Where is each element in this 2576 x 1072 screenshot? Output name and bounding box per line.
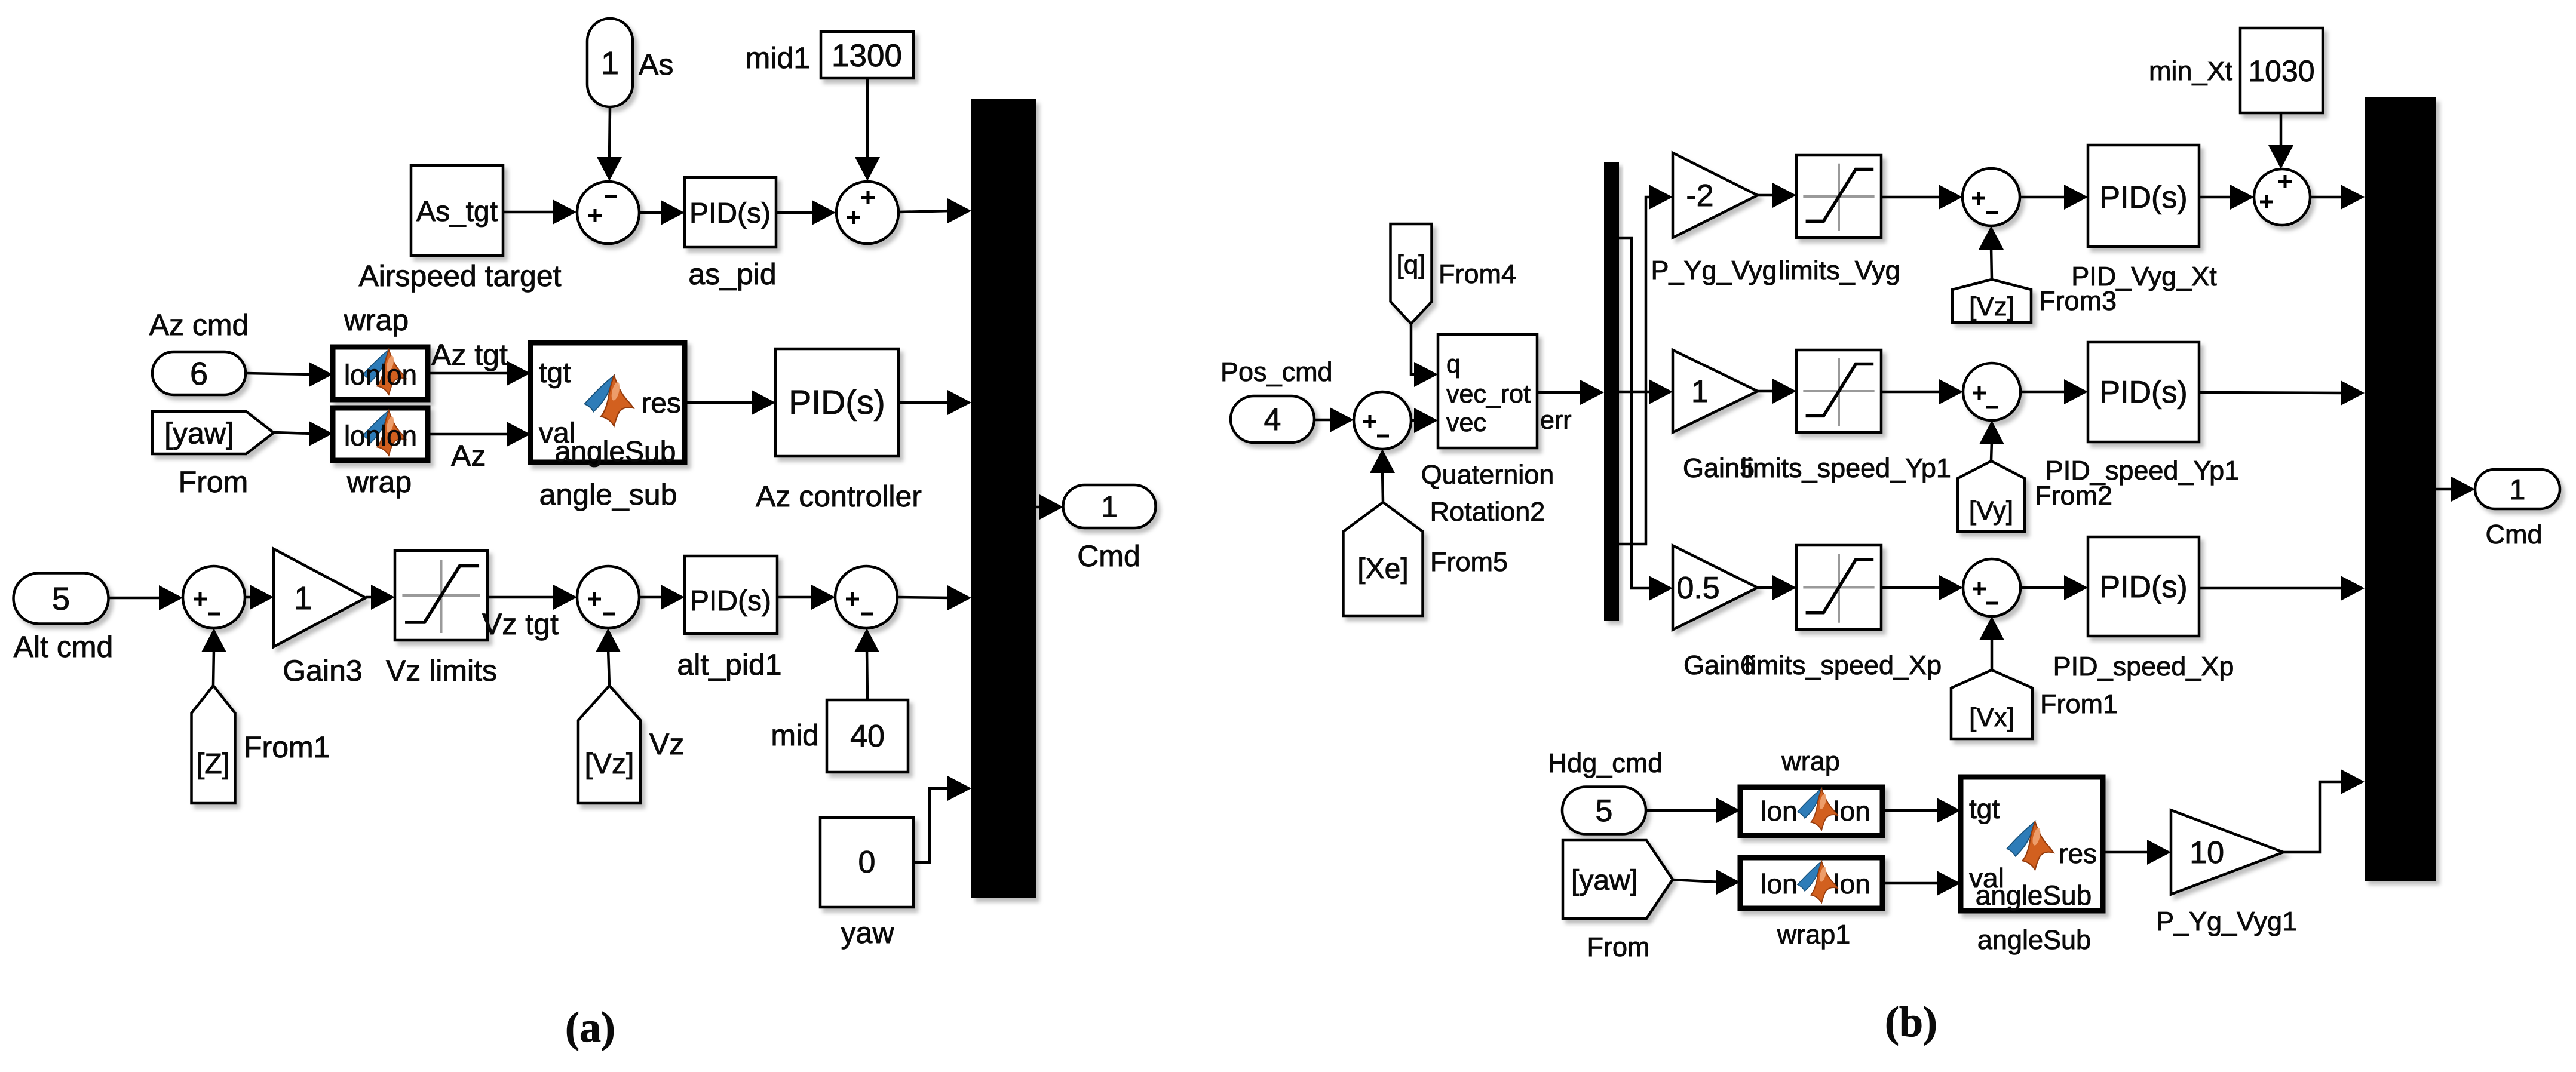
svg-text:Gain3: Gain3	[283, 654, 362, 687]
svg-text:res: res	[2059, 838, 2097, 869]
svg-text:40: 40	[850, 719, 885, 754]
svg-text:res: res	[641, 388, 681, 419]
svg-text:angleSub: angleSub	[555, 436, 676, 468]
svg-text:yaw: yaw	[841, 916, 895, 950]
svg-text:limits_speed_Yp1: limits_speed_Yp1	[1741, 453, 1951, 483]
svg-text:wrap1: wrap1	[1777, 919, 1851, 950]
svg-text:From3: From3	[2039, 285, 2117, 316]
svg-text:[Z]: [Z]	[197, 748, 230, 780]
svg-text:[q]: [q]	[1397, 250, 1426, 279]
svg-text:lonlon: lonlon	[344, 360, 417, 391]
svg-text:lon: lon	[1761, 795, 1797, 827]
svg-text:1030: 1030	[2248, 54, 2314, 88]
svg-text:[Vz]: [Vz]	[585, 748, 634, 780]
svg-text:0: 0	[858, 845, 876, 880]
svg-text:PID(s): PID(s)	[690, 585, 771, 617]
svg-text:[Xe]: [Xe]	[1357, 553, 1408, 585]
svg-text:Rotation2: Rotation2	[1430, 496, 1545, 527]
svg-text:PID(s): PID(s)	[2099, 570, 2187, 604]
svg-text:Pos_cmd: Pos_cmd	[1220, 357, 1333, 387]
svg-text:Quaternion: Quaternion	[1421, 459, 1554, 490]
svg-text:lonlon: lonlon	[344, 420, 417, 452]
svg-text:From5: From5	[1430, 546, 1508, 577]
svg-text:Vz: Vz	[649, 727, 684, 761]
svg-text:5: 5	[1596, 794, 1613, 828]
svg-text:From: From	[1587, 932, 1650, 962]
svg-text:Vz tgt: Vz tgt	[482, 607, 559, 641]
svg-text:10: 10	[2189, 836, 2224, 870]
svg-text:Hdg_cmd: Hdg_cmd	[1548, 748, 1663, 778]
svg-text:1: 1	[294, 580, 312, 616]
svg-text:vec: vec	[1446, 408, 1486, 437]
svg-text:P_Yg_Vyg1: P_Yg_Vyg1	[2156, 906, 2297, 936]
svg-text:[Vz]: [Vz]	[1969, 292, 2014, 321]
svg-text:Cmd: Cmd	[2485, 519, 2542, 549]
svg-text:1: 1	[601, 45, 619, 81]
svg-text:PID(s): PID(s)	[2099, 375, 2187, 410]
svg-text:PID(s): PID(s)	[2099, 180, 2187, 215]
svg-text:From: From	[179, 465, 249, 499]
svg-text:err: err	[1540, 406, 1572, 435]
svg-text:tgt: tgt	[539, 357, 571, 389]
svg-text:PID_speed_Xp: PID_speed_Xp	[2053, 651, 2234, 681]
svg-text:(a): (a)	[565, 1003, 615, 1051]
svg-text:As_tgt: As_tgt	[416, 196, 498, 228]
svg-text:P_Yg_Vyg: P_Yg_Vyg	[1651, 255, 1777, 285]
svg-text:1: 1	[1101, 490, 1118, 524]
svg-text:[yaw]: [yaw]	[164, 417, 234, 450]
svg-text:wrap: wrap	[1781, 746, 1840, 776]
svg-text:mid1: mid1	[746, 41, 810, 75]
svg-text:As: As	[639, 48, 673, 81]
svg-text:From4: From4	[1439, 259, 1516, 289]
svg-text:wrap: wrap	[344, 303, 409, 337]
svg-text:Az cmd: Az cmd	[149, 308, 249, 342]
svg-text:PID(s): PID(s)	[789, 383, 885, 422]
svg-text:wrap: wrap	[346, 465, 412, 499]
svg-text:Alt cmd: Alt cmd	[14, 630, 114, 664]
svg-text:Vz limits: Vz limits	[386, 654, 497, 687]
svg-text:0.5: 0.5	[1676, 571, 1719, 606]
svg-text:angleSub: angleSub	[1977, 924, 2091, 955]
svg-text:lon: lon	[1761, 868, 1797, 899]
svg-text:Airspeed target: Airspeed target	[358, 259, 561, 293]
svg-text:Az: Az	[451, 439, 486, 472]
svg-text:limits_speed_Xp: limits_speed_Xp	[1744, 650, 1942, 680]
svg-text:Az controller: Az controller	[756, 480, 922, 513]
svg-text:alt_pid1: alt_pid1	[677, 648, 781, 681]
svg-text:limits_Vyg: limits_Vyg	[1778, 255, 1900, 285]
svg-text:Cmd: Cmd	[1077, 539, 1140, 573]
svg-text:tgt: tgt	[1969, 793, 2000, 824]
svg-text:From1: From1	[244, 730, 330, 764]
svg-text:lon: lon	[1833, 868, 1870, 899]
svg-text:1300: 1300	[832, 38, 902, 73]
svg-text:[yaw]: [yaw]	[1571, 865, 1638, 896]
svg-text:(b): (b)	[1885, 998, 1937, 1046]
svg-text:From2: From2	[2035, 480, 2112, 511]
svg-text:as_pid: as_pid	[688, 257, 776, 291]
svg-text:1: 1	[2510, 474, 2526, 506]
svg-text:From1: From1	[2040, 689, 2118, 719]
svg-text:5: 5	[52, 581, 70, 617]
svg-text:-2: -2	[1686, 179, 1713, 213]
svg-text:6: 6	[190, 356, 208, 392]
svg-text:vec_rot: vec_rot	[1446, 380, 1531, 408]
svg-text:Az tgt: Az tgt	[431, 338, 508, 371]
svg-text:[Vy]: [Vy]	[1969, 496, 2013, 526]
svg-text:[Vx]: [Vx]	[1969, 703, 2014, 732]
svg-text:lon: lon	[1833, 795, 1870, 827]
svg-text:angleSub: angleSub	[1976, 880, 2092, 911]
svg-text:mid: mid	[771, 718, 819, 752]
svg-text:1: 1	[1691, 374, 1709, 409]
svg-text:4: 4	[1264, 403, 1281, 437]
svg-text:q: q	[1446, 350, 1461, 379]
svg-text:PID(s): PID(s)	[689, 198, 771, 229]
svg-text:angle_sub: angle_sub	[539, 478, 677, 511]
svg-text:min_Xt: min_Xt	[2149, 56, 2233, 86]
